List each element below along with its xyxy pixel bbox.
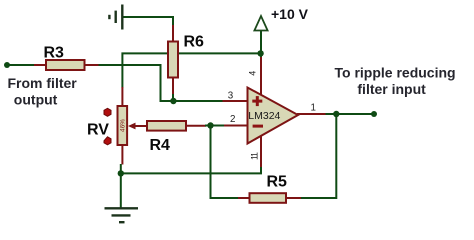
svg-text:46%: 46%	[120, 119, 127, 132]
wire: RV bottom to ground junction	[120, 164, 122, 173]
op-amp U1 LM324	[248, 88, 299, 144]
pin marker (RV bottom)	[104, 137, 111, 145]
pin 11	[249, 136, 261, 168]
wire: pin2 node down and to R5 left	[211, 126, 239, 199]
wire: top ground to R6 top	[123, 17, 173, 26]
label R5	[267, 174, 288, 191]
junction: output / feedback	[333, 111, 339, 117]
svg-text:R6: R6	[184, 34, 205, 51]
svg-text:LM324: LM324	[248, 110, 280, 122]
svg-text:3: 3	[228, 90, 234, 101]
label R6	[184, 34, 205, 51]
label R3	[44, 45, 65, 62]
junction: +10V rail / RV riser	[257, 50, 263, 56]
svg-text:+10 V: +10 V	[271, 6, 309, 22]
terminal node: output (to ripple reducing filter)	[371, 111, 377, 117]
wire: R6 bottom to junction	[172, 94, 174, 101]
ground (bottom)	[105, 208, 139, 222]
wire: input to R3	[7, 64, 35, 66]
resistor R3	[34, 60, 99, 70]
ground (top, rotated)	[109, 5, 122, 30]
wire: junction to pin2 lead	[211, 125, 225, 127]
pin marker (RV top)	[104, 108, 111, 116]
potentiometer RV	[118, 87, 148, 165]
svg-text:1: 1	[311, 102, 316, 113]
svg-text:From filter: From filter	[8, 75, 78, 91]
junction: ground node	[118, 170, 124, 176]
label R4	[150, 137, 171, 154]
resistor R4	[146, 121, 206, 131]
wire: feedback vertical (output to R5)	[300, 114, 336, 198]
text: To ripple reducing filter input	[335, 65, 456, 98]
power +10V arrow	[254, 16, 267, 58]
resistor R6	[168, 25, 178, 95]
svg-text:4: 4	[247, 71, 257, 76]
pin 2	[224, 114, 248, 126]
wire: RV top riser to +10V rail	[122, 53, 260, 87]
svg-text:To ripple reducing: To ripple reducing	[335, 65, 456, 81]
svg-text:R3: R3	[44, 45, 65, 62]
junction: R6 / pin3 node	[170, 98, 176, 104]
wire: pin1 to output terminal	[326, 113, 375, 115]
terminal node: input (From filter output)	[4, 62, 10, 68]
svg-text:2: 2	[230, 114, 235, 125]
label +10 V	[271, 6, 309, 22]
pin 4	[247, 57, 261, 96]
label RV	[87, 122, 109, 139]
pin 1	[297, 102, 326, 114]
svg-text:RV: RV	[87, 122, 109, 139]
pin 3	[223, 90, 249, 101]
svg-text:R4: R4	[150, 137, 171, 154]
svg-text:filter input: filter input	[357, 81, 426, 97]
text: From filter output	[8, 75, 78, 108]
wire: ground junction down to ground symbol	[120, 173, 122, 207]
wire: pin11 to ground rail	[121, 167, 261, 173]
resistor R5	[237, 193, 301, 203]
svg-text:output: output	[14, 92, 58, 108]
junction: pin2 / R4 / feedback	[207, 122, 213, 128]
wire: R4 to pin2 junction	[205, 125, 211, 127]
wire: R3 to corner and down to pin3 row	[98, 65, 223, 101]
svg-text:R5: R5	[267, 174, 288, 191]
